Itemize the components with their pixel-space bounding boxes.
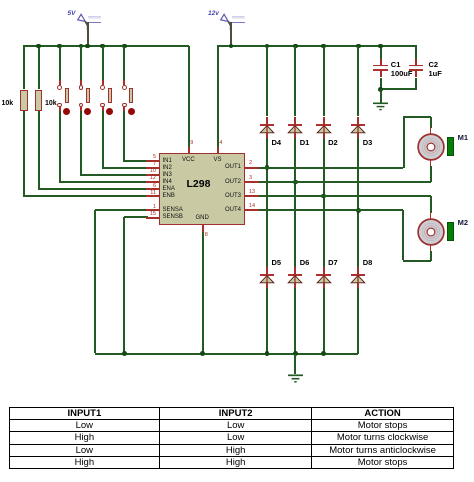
ground symbol capacitors bbox=[372, 102, 389, 112]
wire R1 down bbox=[23, 111, 25, 196]
diode D7 bar bbox=[316, 274, 331, 276]
pin number 7 bbox=[140, 162, 156, 168]
pin number 14 bbox=[249, 204, 255, 210]
wire D7 down to rail bbox=[323, 288, 325, 354]
motor M2 body bbox=[417, 218, 445, 246]
pin label IN2 bbox=[163, 165, 172, 171]
junction rail x124 bbox=[122, 351, 127, 356]
wire to IN2 bbox=[102, 167, 148, 169]
junction col1 out bbox=[293, 180, 298, 185]
junction col3 out bbox=[356, 208, 361, 213]
junction 12v-bus bbox=[229, 44, 234, 49]
wire button4 down bbox=[123, 111, 125, 161]
diode D1 top pin bbox=[294, 117, 296, 126]
pin ENB stub bbox=[146, 195, 160, 197]
junction D4-bus bbox=[265, 44, 270, 49]
pin label SENSB bbox=[163, 214, 183, 220]
junction D2-bus bbox=[321, 44, 326, 49]
wire D2 column down bbox=[323, 138, 325, 267]
motor M2 bottom pin bbox=[430, 245, 432, 252]
button1 bottom pin bbox=[59, 107, 61, 111]
capacitor C2 top plate bbox=[409, 65, 424, 67]
junction D3-bus bbox=[356, 44, 361, 49]
op-amp U1 L298 body bbox=[159, 153, 245, 225]
diode D4 top pin bbox=[266, 117, 268, 126]
wire OUT4 row bbox=[259, 209, 403, 211]
capacitor C1 bottom pin bbox=[380, 71, 382, 78]
pin number 13 bbox=[249, 190, 255, 196]
pin OUT1 stub bbox=[245, 167, 259, 169]
junction col2 out bbox=[321, 194, 326, 199]
pin IN3 stub bbox=[146, 174, 160, 176]
diode D1 bottom pin bbox=[294, 133, 296, 138]
junction rail x202 bbox=[200, 351, 205, 356]
pin label VS bbox=[214, 157, 222, 163]
button1 bottom terminal bbox=[57, 103, 62, 108]
label C2 bbox=[429, 61, 439, 69]
label D7 bbox=[328, 259, 338, 267]
motor M1 green tag bbox=[447, 137, 455, 156]
button3 bottom terminal bbox=[100, 103, 105, 108]
button2 top terminal bbox=[79, 85, 84, 90]
diode D7 top pin bbox=[323, 267, 325, 276]
wire bus to button4 bbox=[123, 46, 125, 80]
button4 top terminal bbox=[122, 85, 127, 90]
diode D4 bottom pin bbox=[266, 133, 268, 138]
junction C1 gnd bbox=[378, 87, 383, 92]
button3 actuator bbox=[108, 88, 112, 103]
wire to ENA bbox=[38, 188, 148, 190]
pin number 8 bbox=[205, 233, 208, 239]
diode D6 triangle bbox=[287, 275, 303, 284]
diode D8 bar bbox=[351, 274, 366, 276]
wire D3 column down bbox=[357, 138, 359, 267]
pin label GND bbox=[196, 215, 209, 221]
diode D6 bar bbox=[288, 274, 303, 276]
pin label IN1 bbox=[163, 158, 172, 164]
wire SENSA row bbox=[95, 209, 148, 211]
button1 red cap bbox=[63, 108, 70, 115]
wire left 5V bus bbox=[23, 45, 189, 47]
pin IN4 stub bbox=[146, 181, 160, 183]
motor M1 body bbox=[417, 133, 445, 161]
ground symbol bottom bbox=[287, 374, 304, 384]
resistor R1 value 10k bbox=[2, 100, 14, 107]
diode D3 top pin bbox=[357, 117, 359, 126]
pin SENSA stub bbox=[146, 209, 160, 211]
junction button3-bus bbox=[100, 44, 105, 49]
label C1 bbox=[391, 61, 401, 69]
wire M1 bottom link bbox=[430, 166, 432, 183]
wire to IN1 bbox=[123, 160, 148, 162]
diode D1 bar bbox=[288, 124, 303, 126]
wire 5V drop bbox=[87, 22, 89, 45]
motor M2 green tag bbox=[447, 222, 455, 241]
resistor R1 body bbox=[20, 90, 28, 111]
diode D6 top pin bbox=[294, 267, 296, 276]
motor M1 bottom pin bbox=[430, 160, 432, 167]
motor M2 top pin bbox=[430, 212, 432, 219]
button4 bottom pin bbox=[123, 107, 125, 111]
button4 top pin bbox=[123, 80, 125, 85]
pin number 2 bbox=[249, 161, 252, 167]
wire to ENB bbox=[23, 195, 148, 197]
wire M2 bottom link bbox=[430, 251, 432, 261]
wire R2 down bbox=[38, 111, 40, 189]
wire D4 column down bbox=[266, 138, 268, 267]
diode D4 triangle bbox=[259, 125, 275, 134]
label M1 bbox=[458, 134, 468, 142]
capacitor C1 top pin bbox=[380, 46, 382, 65]
power terminal 5V text placeholder bbox=[88, 16, 101, 22]
label M2 bbox=[458, 219, 468, 227]
button2 top pin bbox=[80, 80, 82, 85]
pin VS stub bbox=[217, 147, 219, 154]
wire M1 top feed bbox=[403, 116, 430, 118]
junction button4-bus bbox=[122, 44, 127, 49]
button3 bottom pin bbox=[102, 107, 104, 111]
button3 top pin bbox=[102, 80, 104, 85]
wire bus to button2 bbox=[80, 46, 82, 80]
wire bus to VS bbox=[217, 46, 219, 147]
pin number 3 bbox=[249, 176, 252, 182]
wire D8 down to rail bbox=[357, 288, 359, 354]
pin number 10 bbox=[140, 169, 156, 175]
truth table bbox=[9, 407, 454, 469]
diode D7 triangle bbox=[316, 275, 332, 284]
diode D2 top pin bbox=[323, 117, 325, 126]
label 5V bbox=[68, 11, 76, 18]
pin number 1 bbox=[140, 205, 156, 211]
diode D2 triangle bbox=[316, 125, 332, 134]
capacitor C2 bottom pin bbox=[415, 71, 417, 78]
junction R2-bus bbox=[36, 44, 41, 49]
wire M2 top link bbox=[430, 196, 432, 213]
wire D6 down to rail bbox=[294, 288, 296, 354]
wire SENSB row bbox=[124, 216, 148, 218]
diode D2 bottom pin bbox=[323, 133, 325, 138]
pin label OUT1 bbox=[212, 164, 241, 170]
capacitor C1 top pin red bbox=[380, 59, 382, 66]
resistor R2 value 10k bbox=[45, 100, 57, 107]
diode D2 bar bbox=[316, 124, 331, 126]
wire bus to R2 bbox=[38, 46, 40, 89]
pin label OUT2 bbox=[212, 179, 241, 185]
label 12v bbox=[208, 11, 219, 18]
wire bus to VCC bbox=[188, 46, 190, 147]
junction button2-bus bbox=[79, 44, 84, 49]
button2 red cap bbox=[84, 108, 91, 115]
power terminal 5V symbol bbox=[66, 8, 106, 30]
button1 top pin bbox=[59, 80, 61, 85]
resistor R2 body bbox=[35, 90, 43, 111]
motor M1 top pin bbox=[430, 127, 432, 134]
label D3 bbox=[363, 139, 373, 147]
junction rail x323 bbox=[321, 351, 326, 356]
wire C1 to ground bbox=[380, 89, 382, 103]
wire rail to ground bbox=[294, 354, 296, 375]
label D1 bbox=[300, 139, 310, 147]
diode D8 top pin bbox=[357, 267, 359, 276]
diode D6 bottom pin bbox=[294, 283, 296, 288]
pin label IN3 bbox=[163, 172, 172, 178]
wire M1 feed up bbox=[403, 117, 405, 168]
pin number 6 bbox=[140, 184, 156, 190]
pin IN2 stub bbox=[146, 167, 160, 169]
label D4 bbox=[272, 139, 282, 147]
junction rail x295 bbox=[293, 351, 298, 356]
wire GND down bbox=[202, 232, 204, 353]
pin label VCC bbox=[182, 157, 195, 163]
button4 actuator bbox=[129, 88, 133, 103]
capacitor C1 bottom wire bbox=[380, 78, 382, 90]
pin number 4 bbox=[219, 141, 222, 147]
diode D1 triangle bbox=[287, 125, 303, 134]
pin label OUT4 bbox=[212, 207, 241, 213]
wire button3 down bbox=[102, 111, 104, 168]
wire SENSB down bbox=[123, 217, 125, 353]
wire OUT3 row bbox=[259, 195, 431, 197]
wire M1 top drop bbox=[430, 117, 432, 128]
diode D5 bar bbox=[260, 274, 275, 276]
button4 bottom terminal bbox=[122, 103, 127, 108]
pin OUT3 stub bbox=[245, 195, 259, 197]
wire M2 bottom feed bbox=[403, 260, 431, 262]
label D8 bbox=[363, 259, 373, 267]
power terminal 12v text placeholder bbox=[232, 16, 245, 22]
power terminal 12v symbol bbox=[209, 8, 249, 30]
pin label IN4 bbox=[163, 179, 172, 185]
junction col4 out bbox=[265, 165, 270, 170]
pin VCC stub bbox=[188, 147, 190, 154]
button1 top terminal bbox=[57, 85, 62, 90]
wire D1 column down bbox=[294, 138, 296, 267]
button3 top terminal bbox=[100, 85, 105, 90]
pin number 11 bbox=[140, 191, 156, 197]
capacitor C1 bottom plate bbox=[373, 69, 388, 71]
capacitor C2 bottom plate bbox=[409, 69, 424, 71]
wire C1-C2 bottom bbox=[380, 88, 416, 90]
wire to IN3 bbox=[80, 174, 148, 176]
diode D7 bottom pin bbox=[323, 283, 325, 288]
diode D5 top pin bbox=[266, 267, 268, 276]
capacitor C2 bottom wire bbox=[415, 78, 417, 90]
junction C1-bus bbox=[378, 44, 383, 49]
pin GND stub bbox=[202, 225, 204, 232]
pin number 9 bbox=[190, 141, 193, 147]
button2 actuator bbox=[86, 88, 90, 103]
junction D1-bus bbox=[293, 44, 298, 49]
button4 red cap bbox=[128, 108, 135, 115]
pin number 5 bbox=[140, 155, 156, 161]
capacitor C2 top pin red bbox=[415, 59, 417, 66]
pin label ENA bbox=[163, 186, 175, 192]
diode D5 triangle bbox=[259, 275, 275, 284]
wire button1 down bbox=[59, 111, 61, 182]
junction button1-bus bbox=[57, 44, 62, 49]
button3 red cap bbox=[106, 108, 113, 115]
wire bus to R1 bbox=[23, 46, 25, 89]
button1 actuator bbox=[65, 88, 69, 103]
pin number 15 bbox=[140, 212, 156, 218]
wire 12v drop bbox=[230, 22, 232, 45]
pin OUT2 stub bbox=[245, 181, 259, 183]
label L298 bbox=[187, 179, 211, 190]
capacitor C2 top pin bbox=[415, 46, 417, 65]
wire OUT2 row bbox=[259, 181, 431, 183]
pin label SENSA bbox=[163, 207, 183, 213]
pin OUT4 stub bbox=[245, 209, 259, 211]
wire bus to D2 bbox=[323, 46, 325, 116]
label D2 bbox=[328, 139, 338, 147]
capacitor C1 top plate bbox=[373, 65, 388, 67]
wire bottom rail bbox=[95, 353, 358, 355]
diode D3 bar bbox=[351, 124, 366, 126]
label C1 value bbox=[391, 70, 413, 78]
wire bus to D3 bbox=[357, 46, 359, 116]
wire M2 bottom drop bbox=[402, 210, 404, 260]
wire bus to button1 bbox=[59, 46, 61, 80]
pin SENSB stub bbox=[146, 217, 160, 219]
diode D5 bottom pin bbox=[266, 283, 268, 288]
wire SENSA down bbox=[94, 210, 96, 353]
wire button2 down bbox=[80, 111, 82, 175]
wire bus to D1 bbox=[294, 46, 296, 116]
diode D8 bottom pin bbox=[357, 283, 359, 288]
pin number 12 bbox=[140, 176, 156, 182]
pin ENA stub bbox=[146, 188, 160, 190]
button2 bottom pin bbox=[80, 107, 82, 111]
pin label ENB bbox=[163, 193, 175, 199]
wire to IN4 bbox=[59, 181, 148, 183]
wire bus to button3 bbox=[102, 46, 104, 80]
diode D4 bar bbox=[260, 124, 275, 126]
junction rail x267 bbox=[265, 351, 270, 356]
wire D5 down to rail bbox=[266, 288, 268, 354]
diode D8 triangle bbox=[350, 275, 366, 284]
label D5 bbox=[272, 259, 282, 267]
junction 5V-bus bbox=[85, 44, 90, 49]
label C2 value bbox=[429, 70, 442, 78]
button2 bottom terminal bbox=[79, 103, 84, 108]
wire bus to D4 bbox=[266, 46, 268, 116]
diode D3 bottom pin bbox=[357, 133, 359, 138]
diode D3 triangle bbox=[350, 125, 366, 134]
pin IN1 stub bbox=[146, 160, 160, 162]
wire right 12v bus bbox=[217, 45, 417, 47]
wire OUT1 row bbox=[259, 167, 404, 169]
label D6 bbox=[300, 259, 310, 267]
pin label OUT3 bbox=[212, 193, 241, 199]
